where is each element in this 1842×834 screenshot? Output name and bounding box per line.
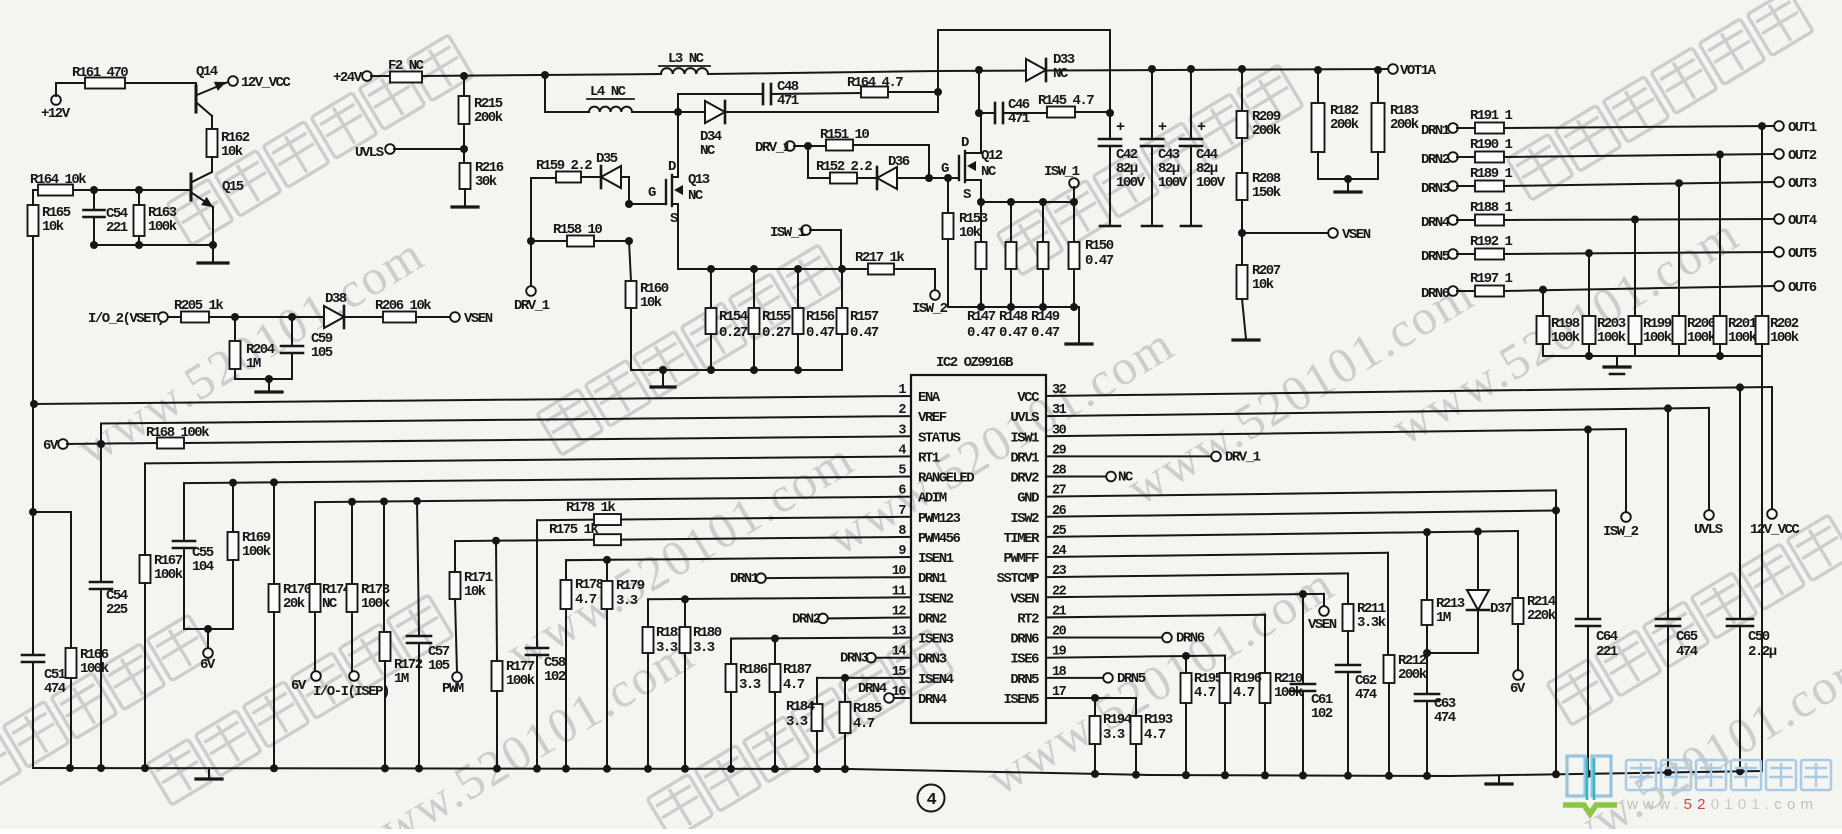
svg-text:DRN4: DRN4 (858, 681, 887, 697)
svg-text:100k: 100k (1643, 330, 1672, 346)
svg-text:VSEN: VSEN (1342, 227, 1371, 243)
svg-text:ISW_2: ISW_2 (1603, 524, 1639, 540)
svg-text:NC: NC (981, 164, 997, 180)
svg-text:S: S (963, 187, 971, 203)
svg-text:0.47: 0.47 (1085, 253, 1114, 269)
svg-text:NC: NC (322, 596, 338, 612)
svg-text:UVLS: UVLS (355, 145, 384, 161)
svg-text:+12V: +12V (41, 106, 71, 122)
svg-text:R193: R193 (1144, 712, 1173, 728)
svg-text:6V: 6V (43, 438, 59, 454)
svg-text:G: G (648, 185, 656, 201)
svg-text:R179: R179 (616, 578, 645, 594)
svg-text:3.3: 3.3 (739, 677, 761, 693)
svg-text:100k: 100k (361, 596, 390, 612)
svg-text:221: 221 (1596, 644, 1618, 660)
svg-text:200k: 200k (1252, 123, 1281, 139)
svg-text:105: 105 (311, 345, 333, 361)
svg-text:ISEN4: ISEN4 (918, 672, 954, 688)
svg-text:0.27: 0.27 (719, 325, 748, 341)
svg-text:D: D (668, 159, 676, 175)
svg-text:100k: 100k (154, 567, 183, 583)
svg-text:C64: C64 (1596, 629, 1618, 645)
svg-text:R161 470: R161 470 (72, 65, 128, 81)
svg-text:OUT3: OUT3 (1788, 176, 1817, 192)
svg-text:R187: R187 (783, 662, 812, 678)
svg-text:DRN3: DRN3 (840, 651, 869, 667)
svg-text:100k: 100k (1551, 330, 1580, 346)
svg-text:NC: NC (688, 188, 704, 204)
svg-text:104: 104 (192, 559, 214, 575)
svg-text:VOT1A: VOT1A (1400, 63, 1437, 79)
svg-text:0.47: 0.47 (999, 325, 1028, 341)
svg-text:DRN2: DRN2 (792, 611, 821, 627)
svg-text:3.3: 3.3 (656, 640, 678, 656)
svg-text:PWMFF: PWMFF (1003, 551, 1039, 567)
svg-text:L3 NC: L3 NC (668, 51, 705, 67)
svg-text:OUT1: OUT1 (1788, 120, 1817, 136)
svg-text:DRN2: DRN2 (1421, 152, 1450, 168)
svg-text:PWM123: PWM123 (918, 511, 961, 527)
svg-text:R156: R156 (806, 309, 835, 325)
svg-text:ENA: ENA (918, 390, 941, 406)
svg-text:150k: 150k (1252, 185, 1281, 201)
svg-text:100k: 100k (1687, 330, 1716, 346)
svg-text:3.3: 3.3 (693, 640, 715, 656)
svg-text:0.47: 0.47 (850, 325, 879, 341)
svg-text:100V: 100V (1196, 175, 1226, 191)
svg-text:C50: C50 (1748, 629, 1770, 645)
svg-text:10k: 10k (959, 225, 981, 241)
svg-text:R154: R154 (719, 309, 748, 325)
svg-text:10k: 10k (42, 219, 64, 235)
svg-text:3.3: 3.3 (1103, 727, 1125, 743)
svg-text:OUT6: OUT6 (1788, 280, 1817, 296)
svg-text:Q13: Q13 (688, 172, 710, 188)
svg-text:ISEN1: ISEN1 (918, 551, 954, 567)
svg-text:R157: R157 (850, 309, 879, 325)
svg-text:R178: R178 (575, 577, 604, 593)
svg-text:DRN1: DRN1 (1421, 123, 1450, 139)
svg-text:+24V: +24V (333, 70, 363, 86)
svg-text:4.7: 4.7 (1194, 685, 1216, 701)
svg-text:DRN5: DRN5 (1117, 671, 1146, 687)
svg-text:VREF: VREF (918, 410, 947, 426)
svg-text:D37: D37 (1490, 601, 1512, 617)
svg-text:4: 4 (927, 791, 937, 810)
svg-text:3.3k: 3.3k (1357, 615, 1386, 631)
svg-text:R145 4.7: R145 4.7 (1038, 93, 1094, 109)
svg-text:R189 1: R189 1 (1470, 166, 1513, 182)
svg-text:102: 102 (1311, 706, 1333, 722)
svg-text:R217 1k: R217 1k (855, 250, 904, 266)
svg-text:RANGELED: RANGELED (918, 471, 974, 487)
svg-text:F2 NC: F2 NC (388, 58, 425, 74)
svg-text:4.7: 4.7 (1144, 727, 1166, 743)
svg-text:474: 474 (1355, 687, 1377, 703)
svg-text:IC2 OZ9916B: IC2 OZ9916B (936, 355, 1014, 371)
svg-text:RT2: RT2 (1017, 611, 1039, 627)
svg-text:DRN6: DRN6 (1421, 286, 1450, 302)
svg-text:ISEN5: ISEN5 (1003, 692, 1039, 708)
svg-text:Q14: Q14 (196, 64, 218, 80)
svg-text:R184: R184 (786, 699, 815, 715)
svg-text:GND: GND (1017, 491, 1039, 507)
svg-text:ISW_2: ISW_2 (912, 301, 948, 317)
svg-text:ISW2: ISW2 (1010, 511, 1039, 527)
svg-text:6V: 6V (291, 678, 307, 694)
svg-text:PWM: PWM (442, 681, 464, 697)
svg-text:100k: 100k (506, 673, 535, 689)
svg-text:221: 221 (106, 220, 128, 236)
svg-text:100V: 100V (1158, 175, 1188, 191)
svg-text:10k: 10k (464, 584, 486, 600)
svg-text:DRV1: DRV1 (1010, 450, 1039, 466)
svg-text:ISW_1: ISW_1 (1044, 164, 1080, 180)
svg-text:R152 2.2: R152 2.2 (816, 159, 872, 175)
svg-text:4.7: 4.7 (783, 677, 805, 693)
svg-text:NC: NC (1118, 470, 1134, 486)
svg-text:R191 1: R191 1 (1470, 108, 1513, 124)
svg-text:ISW_1: ISW_1 (770, 225, 806, 241)
svg-text:100k: 100k (242, 544, 271, 560)
svg-text:Q15: Q15 (222, 179, 244, 195)
svg-text:UVLS: UVLS (1694, 522, 1723, 538)
svg-text:NC: NC (700, 143, 716, 159)
svg-text:100k: 100k (1728, 330, 1757, 346)
svg-text:ISW1: ISW1 (1010, 430, 1039, 446)
svg-text:1M: 1M (394, 671, 409, 687)
svg-text:474: 474 (1434, 710, 1456, 726)
svg-text:STATUS: STATUS (918, 430, 961, 446)
svg-text:UVLS: UVLS (1010, 410, 1039, 426)
svg-text:R149: R149 (1031, 309, 1060, 325)
svg-text:G: G (941, 161, 949, 177)
svg-text:6V: 6V (1510, 681, 1526, 697)
svg-text:0.47: 0.47 (806, 325, 835, 341)
svg-text:D38: D38 (325, 291, 347, 307)
svg-text:R190 1: R190 1 (1470, 137, 1513, 153)
svg-text:VSEN: VSEN (464, 311, 493, 327)
svg-text:DRN1: DRN1 (730, 571, 759, 587)
svg-text:VSEN: VSEN (1010, 591, 1039, 607)
svg-text:D: D (961, 135, 969, 151)
svg-text:TIMER: TIMER (1003, 531, 1040, 547)
svg-text:3.3: 3.3 (616, 593, 638, 609)
svg-text:R206 10k: R206 10k (375, 298, 431, 314)
svg-text:100k: 100k (148, 219, 177, 235)
svg-text:0.47: 0.47 (967, 325, 996, 341)
svg-text:225: 225 (106, 602, 128, 618)
svg-text:I/O_2(VSET): I/O_2(VSET) (88, 311, 164, 327)
svg-text:10k: 10k (1252, 277, 1274, 293)
svg-text:RT1: RT1 (918, 450, 940, 466)
svg-text:DRN3: DRN3 (918, 652, 947, 668)
svg-text:R147: R147 (967, 309, 996, 325)
svg-text:ISEN2: ISEN2 (918, 591, 954, 607)
svg-text:DRN5: DRN5 (1421, 249, 1450, 265)
svg-text:R186: R186 (739, 662, 768, 678)
svg-text:R197 1: R197 1 (1470, 271, 1513, 287)
svg-text:100k: 100k (80, 661, 109, 677)
svg-text:100V: 100V (1116, 175, 1146, 191)
svg-text:200k: 200k (1330, 117, 1359, 133)
svg-text:DRV_1: DRV_1 (514, 298, 550, 314)
svg-text:10k: 10k (640, 295, 662, 311)
svg-text:PWM456: PWM456 (918, 531, 961, 547)
svg-text:D36: D36 (888, 154, 910, 170)
svg-text:R205 1k: R205 1k (174, 298, 223, 314)
svg-text:200k: 200k (1398, 667, 1427, 683)
svg-text:102: 102 (544, 669, 566, 685)
svg-text:R175 1k: R175 1k (549, 522, 598, 538)
svg-text:DRN6: DRN6 (1010, 632, 1039, 648)
svg-text:DRN4: DRN4 (1421, 215, 1450, 231)
svg-text:R164 4.7: R164 4.7 (847, 75, 903, 91)
svg-text:3.3: 3.3 (786, 714, 808, 730)
svg-text:VCC: VCC (1017, 390, 1040, 406)
svg-text:ADIM: ADIM (918, 491, 947, 507)
svg-text:4.7: 4.7 (575, 592, 597, 608)
svg-text:ISEN3: ISEN3 (918, 632, 954, 648)
svg-text:12V_VCC: 12V_VCC (1750, 522, 1800, 538)
svg-text:Q12: Q12 (981, 148, 1003, 164)
svg-text:R178 1k: R178 1k (566, 500, 615, 516)
svg-text:ISE6: ISE6 (1010, 652, 1039, 668)
svg-text:D35: D35 (596, 151, 618, 167)
svg-text:C65: C65 (1676, 629, 1698, 645)
svg-text:DRN4: DRN4 (918, 692, 947, 708)
svg-text:474: 474 (44, 681, 66, 697)
svg-text:DRN6: DRN6 (1176, 631, 1205, 647)
svg-text:R192 1: R192 1 (1470, 234, 1513, 250)
svg-text:VSEN: VSEN (1308, 617, 1337, 633)
svg-text:220k: 220k (1527, 608, 1556, 624)
svg-text:DRV_1: DRV_1 (1225, 449, 1261, 465)
svg-text:100k: 100k (1274, 685, 1303, 701)
svg-text:12V_VCC: 12V_VCC (241, 75, 291, 91)
svg-text:10k: 10k (221, 144, 243, 160)
svg-text:100k: 100k (1770, 330, 1799, 346)
svg-text:1M: 1M (1436, 610, 1451, 626)
svg-text:471: 471 (777, 93, 799, 109)
svg-text:R148: R148 (999, 309, 1028, 325)
svg-text:DRN2: DRN2 (918, 611, 947, 627)
svg-text:4.7: 4.7 (853, 716, 875, 732)
svg-text:R150: R150 (1085, 238, 1114, 254)
svg-text:100k: 100k (1597, 330, 1626, 346)
svg-text:R164 10k: R164 10k (30, 172, 86, 188)
svg-text:0.27: 0.27 (762, 325, 791, 341)
svg-text:30k: 30k (475, 174, 497, 190)
svg-text:6V: 6V (200, 657, 216, 673)
svg-text:474: 474 (1676, 644, 1698, 660)
svg-text:OUT5: OUT5 (1788, 246, 1817, 262)
svg-text:DRN5: DRN5 (1010, 672, 1039, 688)
svg-text:OUT2: OUT2 (1788, 148, 1817, 164)
svg-text:I/O-I(ISEP): I/O-I(ISEP) (313, 684, 389, 700)
svg-text:L4 NC: L4 NC (590, 84, 627, 100)
svg-text:DRV2: DRV2 (1010, 471, 1039, 487)
svg-text:200k: 200k (474, 110, 503, 126)
svg-text:R168 100k: R168 100k (146, 425, 209, 441)
svg-text:4.7: 4.7 (1233, 685, 1255, 701)
svg-text:SSTCMP: SSTCMP (997, 571, 1040, 587)
svg-text:R159 2.2: R159 2.2 (536, 158, 592, 174)
svg-text:NC: NC (1053, 66, 1069, 82)
svg-text:R158 10: R158 10 (553, 222, 602, 238)
svg-text:R185: R185 (853, 701, 882, 717)
svg-text:0.47: 0.47 (1031, 325, 1060, 341)
svg-text:S: S (670, 211, 678, 227)
svg-text:R194: R194 (1103, 712, 1132, 728)
svg-text:2.2μ: 2.2μ (1748, 644, 1777, 660)
svg-text:R180: R180 (693, 625, 722, 641)
svg-text:20k: 20k (283, 596, 305, 612)
svg-text:1M: 1M (246, 356, 261, 372)
svg-text:105: 105 (428, 658, 450, 674)
svg-text:DRN3: DRN3 (1421, 181, 1450, 197)
svg-text:R155: R155 (762, 309, 791, 325)
svg-text:200k: 200k (1390, 117, 1419, 133)
svg-text:DRV_1: DRV_1 (755, 140, 791, 156)
svg-text:R188 1: R188 1 (1470, 200, 1513, 216)
svg-text:R151 10: R151 10 (820, 127, 869, 143)
svg-text:DRN1: DRN1 (918, 571, 947, 587)
svg-text:www.520101.com: www.520101.com (1626, 796, 1818, 813)
svg-text:OUT4: OUT4 (1788, 213, 1817, 229)
